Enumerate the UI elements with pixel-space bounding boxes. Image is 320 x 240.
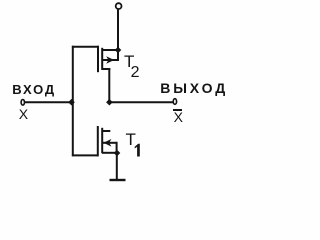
label T1 designator	[126, 131, 136, 148]
wire output	[108, 101, 173, 103]
label X-bar overline	[173, 109, 182, 111]
wire gate bus vertical	[72, 46, 74, 157]
ground bar	[110, 179, 126, 181]
wire T2 drain to output node	[108, 68, 110, 103]
label X (input signal)	[19, 107, 28, 121]
transistor T1 substrate arrow (n-channel, points left)	[103, 139, 111, 147]
wire input	[25, 101, 74, 103]
transistor T1 gate bar	[97, 126, 99, 156]
label X-bar (output signal)	[174, 110, 183, 124]
transistor T1 drain lead (top)	[102, 130, 110, 132]
transistor T2 substrate jog	[117, 49, 119, 61]
transistor T2 channel bar	[101, 48, 103, 70]
transistor T2 substrate arrow (p-channel, points right)	[106, 56, 114, 64]
wire gate bus top horizontal	[72, 46, 99, 48]
wire gate bus bottom horizontal	[72, 154, 99, 156]
input terminal circle	[21, 100, 24, 106]
transistor T1 source lead (bottom)	[102, 152, 118, 154]
label T2 designator	[124, 53, 134, 70]
transistor T2 gate bar	[97, 46, 99, 72]
node input junction dot	[68, 99, 75, 106]
node supply junction dot	[115, 47, 122, 53]
label ВЫХОД (output)	[160, 81, 228, 95]
transistor T2 drain lead (bottom)	[102, 68, 110, 70]
transistor T2 source lead (top)	[102, 49, 119, 51]
transistor T2 substrate lead	[103, 59, 118, 61]
wire to ground	[116, 153, 118, 180]
transistor T1 channel bar	[101, 128, 103, 153]
transistor T1 substrate lead	[103, 142, 117, 144]
node source-substrate junction dot	[114, 150, 121, 157]
label ВХОД (input)	[12, 83, 56, 96]
power terminal circle (+U)	[116, 3, 122, 9]
transistor T1 substrate jog	[116, 142, 118, 154]
output terminal circle	[173, 99, 176, 105]
node output junction dot	[106, 99, 113, 106]
wire supply vertical	[117, 9, 119, 51]
